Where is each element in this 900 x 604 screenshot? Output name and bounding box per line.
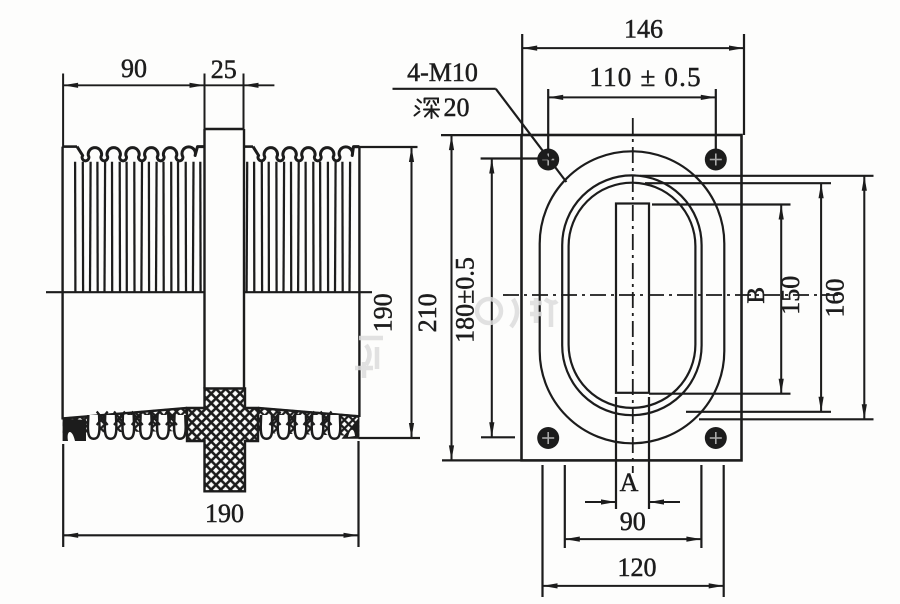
svg-text:110 ± 0.5: 110 ± 0.5: [589, 62, 701, 92]
svg-text:B: B: [743, 287, 770, 304]
svg-text:A: A: [620, 468, 639, 497]
svg-text:4-M10: 4-M10: [407, 58, 478, 87]
svg-text:150: 150: [776, 276, 805, 315]
svg-text:190: 190: [369, 293, 398, 332]
svg-text:90: 90: [121, 54, 147, 83]
svg-text:180±0.5: 180±0.5: [451, 257, 480, 343]
svg-text:190: 190: [205, 499, 244, 528]
svg-text:160: 160: [821, 279, 850, 318]
svg-text:210: 210: [413, 293, 442, 332]
svg-text:146: 146: [624, 15, 663, 44]
svg-text:25: 25: [211, 55, 237, 84]
svg-text:120: 120: [618, 553, 657, 582]
svg-text:90: 90: [620, 507, 646, 536]
svg-text:20: 20: [444, 93, 470, 122]
